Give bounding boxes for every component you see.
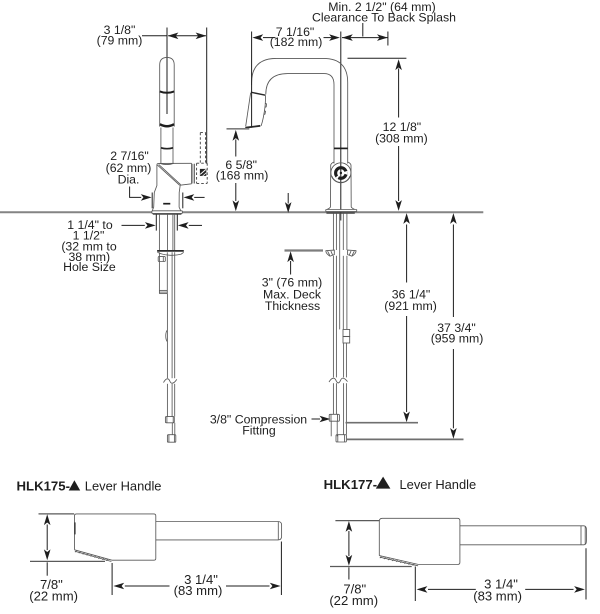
deck underside reference line <box>285 249 324 251</box>
36 1/4 bottom reference line <box>346 422 419 424</box>
right faucet wand left edge <box>246 93 251 126</box>
svg-text:Dia.: Dia. <box>118 173 140 187</box>
right faucet hose below connector <box>344 343 347 435</box>
left faucet hose break symbol <box>163 378 179 384</box>
svg-text:(182 mm): (182 mm) <box>270 35 323 49</box>
HLK177 top reference line <box>335 520 379 522</box>
back splash extension line <box>387 32 389 46</box>
HLK177 title <box>324 477 477 492</box>
right faucet wand seam <box>251 92 266 95</box>
left faucet body left edge <box>152 164 157 210</box>
HLK175 handle left edge detail <box>74 522 76 534</box>
right faucet supply tube B <box>343 256 347 330</box>
dimension 2 7/16in left leader arrow <box>130 187 152 201</box>
left faucet handle stem <box>161 128 173 164</box>
dimension 36 1/4in arrow line <box>403 213 410 422</box>
dimension 6 5/8in (168 mm) label <box>216 158 269 183</box>
right faucet sensor flange arc <box>332 176 350 182</box>
right faucet column joint tick <box>334 147 348 149</box>
right faucet hose break symbol <box>328 377 349 383</box>
left faucet hose end nut <box>167 435 175 443</box>
left faucet spray hose tube <box>159 252 167 293</box>
right faucet hose end nut <box>336 435 346 442</box>
dimension 37 3/4in (959 mm) label <box>431 321 484 345</box>
HLK177 handle chamfer hatched edge <box>379 556 418 566</box>
svg-text:HLK177-: HLK177- <box>324 477 378 492</box>
left faucet lower body right edge <box>179 185 181 210</box>
right faucet wand tip <box>245 126 260 128</box>
svg-text:(308 mm): (308 mm) <box>375 131 428 145</box>
svg-text:(79 mm): (79 mm) <box>97 34 143 48</box>
svg-text:(22 mm): (22 mm) <box>329 593 378 608</box>
HLK175 bottom reference line <box>30 560 105 562</box>
svg-text:Lever Handle: Lever Handle <box>400 477 477 492</box>
left faucet docked wand hidden outline (dashed) <box>197 133 208 184</box>
right faucet supply tube A <box>333 256 336 414</box>
left faucet handle bottom cap <box>160 124 174 126</box>
left faucet supply hoses in shank <box>168 214 173 251</box>
hole size extension ticks <box>156 214 177 230</box>
Min clearance label <box>312 0 456 25</box>
center-of-sink down arrow <box>285 193 292 213</box>
HLK177 lever bar <box>460 526 587 545</box>
svg-text:Thickness: Thickness <box>265 299 320 313</box>
dimension 6 5/8in arrow line <box>233 130 240 211</box>
hole size left arrow <box>122 222 156 229</box>
compression fitting leader arrow <box>312 416 331 423</box>
HLK175 3 1/4 dimension arrow line <box>113 583 280 590</box>
HLK177 3 1/4 dimension arrow line <box>417 586 585 593</box>
HLK175 lever bar <box>156 522 282 540</box>
right faucet spout outer profile <box>252 58 348 163</box>
dimension 2 7/16in extension ticks <box>152 193 183 209</box>
dimension 2 7/16in (62 mm) Dia. label <box>106 149 152 187</box>
dimension 12 1/8in extension line <box>348 57 407 59</box>
left faucet base slab <box>152 211 182 214</box>
wand tip reference line <box>227 128 250 130</box>
svg-text:Fitting: Fitting <box>242 424 276 438</box>
right faucet centerline extension <box>340 32 342 221</box>
hole size label <box>61 218 117 274</box>
HLK175 handle body <box>75 514 156 560</box>
left faucet hose clip detail <box>166 330 168 342</box>
right faucet pedestal base <box>326 162 357 213</box>
left faucet body top edge <box>157 163 192 164</box>
HLK177 3 1/4 extension lines <box>415 548 586 601</box>
dimension 36 1/4in (921 mm) label <box>384 288 437 314</box>
countertop line <box>0 211 483 213</box>
compression fitting label <box>210 412 307 437</box>
HLK175 3 1/4 extension lines <box>112 542 281 596</box>
dimension 37 3/4in arrow line <box>450 213 457 439</box>
dimension 12 1/8in arrow line <box>395 59 402 211</box>
dimension 3 1/8in arrow line <box>168 33 207 40</box>
svg-text:(83 mm): (83 mm) <box>174 583 223 598</box>
HLK177 handle body <box>379 518 460 564</box>
right faucet compression fitting <box>329 414 339 421</box>
dimension min 2 1/2 arrow line <box>342 34 388 41</box>
svg-text:(959 mm): (959 mm) <box>431 331 484 345</box>
left faucet handle upper band <box>160 91 175 92</box>
deck thickness label <box>262 276 322 314</box>
dimension 3 1/8in extension line left / handle centerline <box>166 28 168 115</box>
left faucet shank <box>159 214 174 251</box>
svg-text:(168 mm): (168 mm) <box>216 169 269 183</box>
dimension 2 7/16in right arrow <box>184 194 205 201</box>
right faucet spout inner profile <box>266 74 334 164</box>
right faucet hex connector <box>343 330 350 344</box>
right faucet sensor ring <box>336 168 348 179</box>
HLK175 7/8 (22 mm) label <box>29 577 78 603</box>
right faucet winged mounting nut <box>326 250 356 256</box>
svg-text:Clearance To Back Splash: Clearance To Back Splash <box>312 11 456 25</box>
left faucet spout joint lines <box>193 164 195 184</box>
left faucet hose below fitting <box>172 423 175 435</box>
right faucet stub below fitting <box>331 421 337 436</box>
svg-text:(921 mm): (921 mm) <box>384 299 437 313</box>
svg-text:Lever Handle: Lever Handle <box>85 479 162 494</box>
dimension 3 1/8in (79 mm) label <box>97 23 143 48</box>
deck thickness arrow <box>287 251 294 274</box>
dimension 7 1/16in (182 mm) label <box>270 25 323 49</box>
left faucet supply hose lines <box>167 252 174 416</box>
HLK175 title <box>17 479 162 494</box>
dimension 3 1/8in extension line right <box>206 28 208 164</box>
left faucet body right edge <box>191 163 193 184</box>
right faucet shank below counter <box>333 214 347 330</box>
svg-text:Hole Size: Hole Size <box>63 260 116 274</box>
dimension 7 1/16in arrows <box>252 34 340 41</box>
right faucet sensor outer circle <box>331 163 351 183</box>
hole size right arrow <box>178 222 202 229</box>
right faucet wand buttons <box>264 103 267 114</box>
HLK177 7/8 dimension arrow <box>346 521 353 580</box>
dimension 3 1/8in leader line <box>142 35 167 37</box>
left faucet body diagonal chamfer <box>157 164 180 185</box>
left faucet body bottom-right edge <box>180 184 191 185</box>
wand outer extension line <box>251 32 253 128</box>
left faucet mounting plate <box>157 251 184 255</box>
HLK175 3 1/4 (83 mm) label <box>174 572 223 598</box>
dimension 12 1/8in (308 mm) label <box>375 120 428 145</box>
clearance leader line <box>362 23 364 37</box>
HLK175 top reference line <box>39 513 75 515</box>
svg-text:(22 mm): (22 mm) <box>29 588 78 603</box>
right faucet wand right edge <box>261 95 265 126</box>
left faucet compression fitting <box>165 417 174 423</box>
37 3/4 bottom reference line <box>347 438 464 440</box>
left faucet base dash mark <box>163 203 170 205</box>
HLK177 bottom reference line <box>330 566 412 568</box>
svg-text:(83 mm): (83 mm) <box>473 589 522 604</box>
HLK175 7/8 dimension arrow <box>44 514 51 575</box>
HLK177 3 1/4 (83 mm) label <box>473 577 522 604</box>
left faucet lever handle pill <box>160 57 175 126</box>
left faucet mounting nut <box>158 257 165 262</box>
HLK177 7/8 (22 mm) label <box>329 582 378 608</box>
left faucet handle stem band <box>161 147 173 150</box>
left faucet set screw hatch detail <box>200 169 206 176</box>
svg-text:HLK175-: HLK175- <box>17 479 71 494</box>
HLK175 handle chamfer hatched edge <box>75 550 112 562</box>
